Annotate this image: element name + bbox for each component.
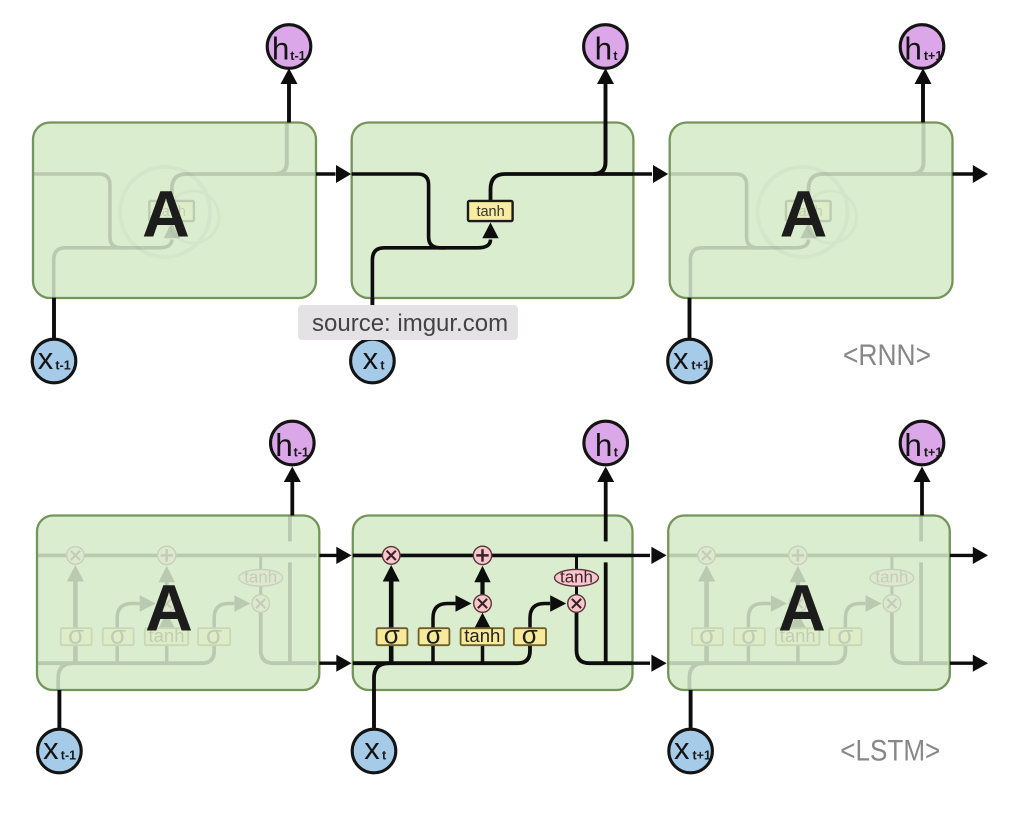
LSTM cell A (t-1) faded interior wiring <box>37 516 317 691</box>
svg-text:x: x <box>364 731 380 766</box>
svg-text:x: x <box>43 731 59 766</box>
LSTM cell A (t-1) body <box>37 516 319 691</box>
node x(t-1) bottom row <box>38 729 82 773</box>
node x(t+1) <box>668 339 712 383</box>
wire: x(t) stem <box>370 298 374 340</box>
LSTM cell A (t+1) body <box>668 516 950 691</box>
wire: arrow to h(t-1) top <box>281 68 298 122</box>
wire: RNN cell2 to cell3 arrow <box>633 165 668 183</box>
RNN cell A (t-1) faded loop circle <box>120 167 219 257</box>
node h(t) bottom row <box>584 421 628 465</box>
svg-text:t+1: t+1 <box>924 49 942 63</box>
svg-text:h: h <box>904 427 922 463</box>
svg-text:A: A <box>145 571 193 645</box>
LSTM cell A (t) interior wiring <box>353 516 633 691</box>
LSTM cell A (t) body <box>353 516 633 691</box>
svg-text:t-1: t-1 <box>290 49 305 63</box>
wire: x(t+1) stem <box>688 298 692 340</box>
wire: arrow to h(t+1) bottom row <box>914 467 931 516</box>
RNN cell A (t-1) body <box>33 123 316 299</box>
wire: x(t-1) stem bottom row <box>57 690 61 730</box>
wire: x(t) stem bottom row <box>372 690 376 730</box>
wire: LSTM h-line cell2 to cell3 arrow <box>633 655 667 672</box>
wire: RNN cell3 output arrow <box>953 165 989 183</box>
wire: LSTM C-line cell3 output arrow <box>950 547 988 564</box>
RNN cell A (t+1) body <box>670 123 953 299</box>
wire: arrow to h(t) top <box>597 68 614 122</box>
wire: x(t-1) stem <box>52 298 56 340</box>
RNN cell A (t) interior wiring <box>352 123 634 298</box>
wire: LSTM C-line cell2 to cell3 arrow <box>633 547 667 564</box>
svg-text:h: h <box>595 427 613 463</box>
svg-text:t+1: t+1 <box>924 445 942 459</box>
svg-text:x: x <box>674 731 690 766</box>
svg-text:x: x <box>363 341 379 376</box>
node x(t) <box>351 339 395 383</box>
node x(t-1) <box>32 339 76 383</box>
RNN cell A (t) body <box>352 123 634 299</box>
RNN cell A (t+1) faded loop circle <box>758 167 857 257</box>
node x(t) bottom row <box>352 729 396 773</box>
svg-text:t-1: t-1 <box>55 359 70 373</box>
svg-text:<RNN>: <RNN> <box>843 339 931 372</box>
LSTM cell A (t+1) faded interior wiring <box>668 516 948 691</box>
svg-text:t-1: t-1 <box>294 445 309 459</box>
svg-text:t-1: t-1 <box>61 749 76 763</box>
svg-text:t+1: t+1 <box>691 359 709 373</box>
node h(t-1) <box>267 25 311 69</box>
svg-text:x: x <box>673 341 689 376</box>
svg-text:A: A <box>780 177 828 251</box>
svg-text:h: h <box>595 30 613 66</box>
svg-text:source: imgur.com: source: imgur.com <box>312 310 508 337</box>
node h(t) <box>584 25 628 69</box>
svg-text:h: h <box>904 30 922 66</box>
wire: LSTM h-line cell1 to cell2 arrow <box>319 655 351 672</box>
node h(t+1) <box>900 25 944 69</box>
svg-text:<LSTM>: <LSTM> <box>840 735 940 768</box>
wire: LSTM h-line cell3 output arrow <box>950 655 988 672</box>
wire: arrow to h(t) bottom row <box>597 467 614 516</box>
svg-text:t+1: t+1 <box>693 749 711 763</box>
svg-text:h: h <box>272 30 290 66</box>
RNN cell A (t-1) faded interior wiring <box>33 123 315 298</box>
wire: LSTM C-line cell1 to cell2 arrow <box>319 547 351 564</box>
RNN cell A (t+1) faded interior wiring <box>670 123 952 298</box>
node x(t+1) bottom row <box>669 729 713 773</box>
svg-text:A: A <box>778 571 826 645</box>
wire: arrow to h(t+1) top <box>915 68 932 122</box>
svg-text:A: A <box>142 177 190 251</box>
node h(t+1) bottom row <box>900 421 944 465</box>
svg-text:x: x <box>38 341 54 376</box>
wire: arrow to h(t-1) bottom row <box>284 467 301 516</box>
source tooltip <box>298 305 518 340</box>
wire: RNN cell1 to cell2 arrow <box>316 165 351 183</box>
svg-text:h: h <box>275 427 293 463</box>
node h(t-1) bottom row <box>271 421 315 465</box>
wire: x(t+1) stem bottom row <box>689 690 693 730</box>
